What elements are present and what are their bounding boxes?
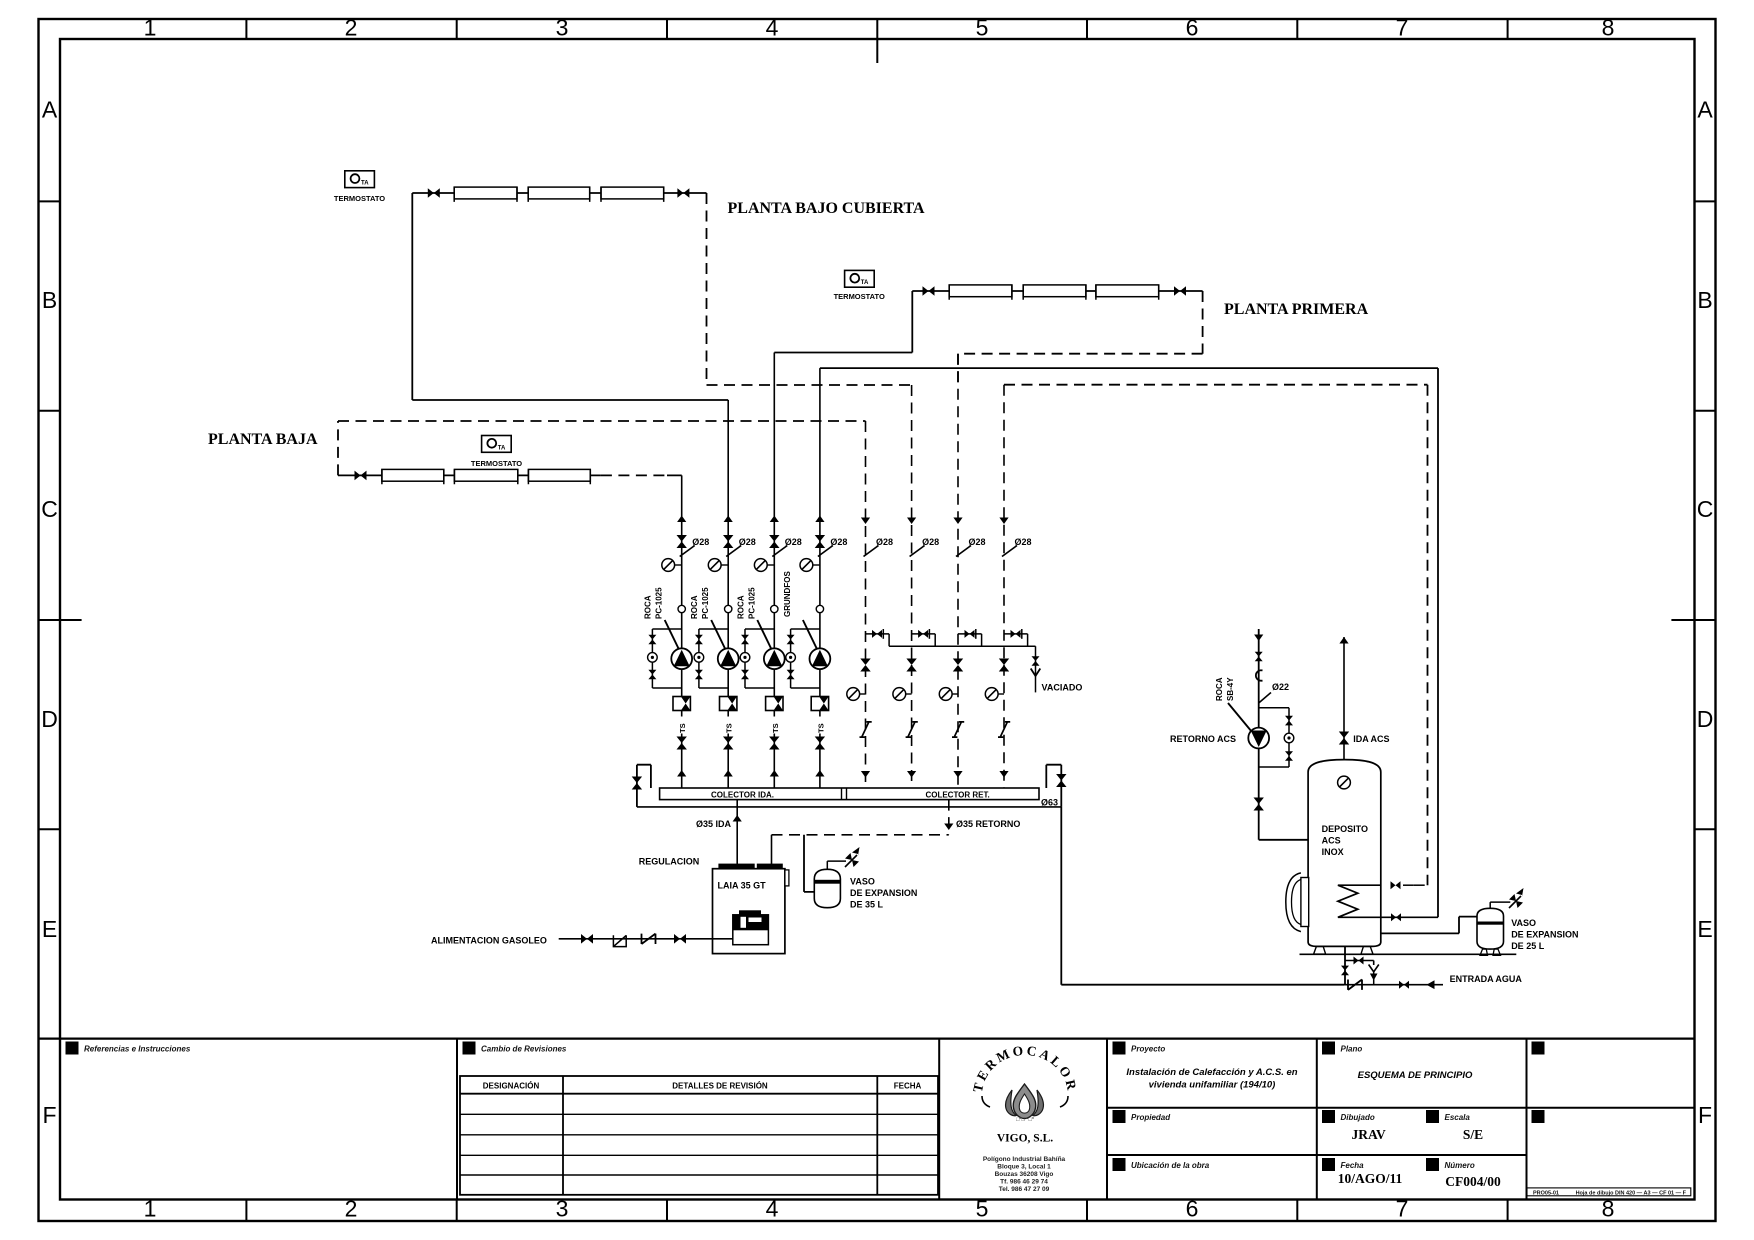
valve: bajo cubierta right radiator valve [677, 188, 689, 198]
valve: drain branch return riser 4 [1011, 630, 1021, 638]
drain branch return riser 4 [1004, 634, 1028, 646]
svg-text:GRUNDFOS: GRUNDFOS [783, 571, 792, 617]
valve: bypass upper riser 4 [787, 635, 795, 645]
wire: return riser 2 (dashed) [911, 385, 913, 788]
svg-text:COLECTOR IDA.: COLECTOR IDA. [711, 790, 774, 799]
valve: bypass lower riser 2 [695, 670, 703, 680]
svg-text:Ubicación de la obra: Ubicación de la obra [1131, 1161, 1210, 1170]
wire: planta baja return (dashed) [338, 421, 866, 475]
pipe size tick return riser 4 [1002, 546, 1017, 557]
svg-text:VASO: VASO [1511, 918, 1536, 928]
valve: riser 2 isolation valve [723, 535, 733, 548]
svg-text:8: 8 [1602, 1196, 1615, 1222]
valve: bypass lower riser 4 [787, 670, 795, 680]
valve: drain branch return riser 1 [872, 630, 882, 638]
deposito acs inox tank body [1308, 760, 1381, 947]
probe TS riser 4 [814, 717, 825, 734]
valve: planta baja radiator valve [355, 471, 367, 481]
title block row line 2 [1107, 1154, 1527, 1156]
heating coil in tank [1338, 885, 1438, 917]
valve: retorno acs lower valve [1254, 798, 1264, 811]
valve: bypass lower riser 1 [648, 670, 656, 680]
air purge return riser 2 [893, 688, 906, 701]
svg-text:TA: TA [361, 181, 369, 187]
svg-text:Proyecto: Proyecto [1131, 1045, 1165, 1054]
svg-text:Polígono Industrial Bahíña: Polígono Industrial Bahíña [983, 1156, 1066, 1163]
svg-text:DE EXPANSION: DE EXPANSION [1511, 930, 1578, 940]
wire: planta baja radiator line [338, 474, 682, 476]
flow arrow &#216;35 ida [733, 815, 742, 822]
escala cell [1426, 1110, 1439, 1123]
svg-text:TERMOSTATO: TERMOSTATO [334, 194, 385, 203]
ruler ticks bottom [245, 1200, 247, 1222]
svg-text:B: B [1697, 287, 1712, 313]
flow arrow down return riser 1 [861, 518, 870, 525]
numero cell [1426, 1158, 1439, 1171]
svg-text:Bouzas 36208 Vigo: Bouzas 36208 Vigo [995, 1171, 1054, 1178]
svg-text:Dibujado: Dibujado [1341, 1113, 1375, 1122]
valve: return riser 1 isolation valve [860, 659, 870, 672]
svg-text:LAIA 35 GT: LAIA 35 GT [718, 881, 767, 891]
leader line to pump 1 [665, 620, 681, 652]
wire: entrada agua line [1344, 984, 1443, 986]
radiator: baja 2 [454, 469, 517, 481]
valve: riser 1 lower isolation valve [677, 737, 687, 750]
svg-text:PLANTA PRIMERA: PLANTA PRIMERA [1224, 301, 1369, 318]
wire: return riser 4 (dashed) [1003, 385, 1005, 788]
svg-text:JRAV: JRAV [1351, 1127, 1386, 1142]
radiator: primera 2 [1023, 285, 1086, 297]
collector bar (colector ida / colector ret.) [660, 788, 1039, 800]
wire: acs coil supply run (solid) [820, 368, 1438, 917]
svg-text:ROCA: ROCA [736, 595, 745, 619]
valve: primera left radiator valve [923, 286, 935, 296]
svg-text:E: E [42, 916, 57, 942]
wire: acs coil return run (dashed) [1004, 385, 1428, 886]
boiler right tab [785, 870, 789, 886]
pipe size tick return riser 3 [956, 546, 971, 557]
pipe size tick return riser 1 [864, 546, 879, 557]
union riser 2 [725, 605, 732, 612]
valve: drain discharge valve [1354, 957, 1364, 965]
drain branch return riser 3 [958, 634, 982, 646]
pump P4 (GRUNDFOS) [810, 648, 831, 669]
gauge: acs bypass [1284, 733, 1294, 743]
valve: ida acs valve [1339, 732, 1349, 745]
wire: expansion vessel 35l branch [804, 835, 814, 892]
ruler ticks right [1695, 200, 1716, 202]
svg-text:S/E: S/E [1463, 1127, 1483, 1142]
floor line [1300, 953, 1517, 955]
flow arrow up riser 1 [677, 516, 686, 523]
flow arrow retorno acs [1254, 635, 1263, 642]
union riser 3 [771, 605, 778, 612]
svg-text:VASO: VASO [850, 877, 875, 887]
boiler top flange right [757, 864, 783, 869]
drain branch return riser 1 [866, 634, 890, 646]
svg-text:ROCA: ROCA [644, 595, 653, 619]
ruler ticks left [39, 200, 61, 202]
boiler top flange left [718, 864, 754, 869]
anti-return device retorno acs [1256, 670, 1263, 680]
right info cell squares [1532, 1042, 1545, 1055]
valve: primera right radiator valve [1174, 286, 1186, 296]
svg-text:8: 8 [1602, 15, 1615, 41]
proyecto cell [1113, 1042, 1126, 1055]
propiedad cell [1113, 1110, 1126, 1123]
pump bypass riser 1 [652, 629, 681, 688]
svg-text:F: F [1698, 1102, 1712, 1128]
flow arrow up riser 2 [724, 516, 733, 523]
safety valve (vaso 35l) [845, 847, 860, 867]
pipe size tick riser 2 [726, 546, 741, 557]
svg-text:Cambio de Revisiones: Cambio de Revisiones [481, 1045, 567, 1054]
pump P2 (ROCA PC-1025) [718, 648, 739, 669]
valve: bypass upper riser 3 [741, 635, 749, 645]
valve: retorno acs upper valve [1255, 652, 1263, 662]
air purge riser 2 [708, 559, 721, 572]
funnel arrow vaciado [1031, 669, 1041, 677]
svg-text:TS: TS [816, 723, 825, 733]
title block vertical dividers [456, 1039, 458, 1200]
wire: bottom drain line [637, 806, 1061, 808]
flow arrow down return riser 4 [999, 518, 1008, 525]
svg-text:PLANTA BAJO CUBIERTA: PLANTA BAJO CUBIERTA [728, 200, 926, 217]
svg-text:RETORNO ACS: RETORNO ACS [1170, 734, 1236, 744]
wire: &#216;35 ida pipe to boiler [736, 800, 738, 864]
valve: coil bottom port [1391, 913, 1401, 921]
union riser 4 [816, 605, 823, 612]
svg-text:ROCA: ROCA [1215, 677, 1224, 701]
svg-text:PRO05-01: PRO05-01 [1533, 1190, 1559, 1196]
flow arrow into collector return riser 1 [861, 771, 870, 778]
svg-text:DE EXPANSION: DE EXPANSION [850, 888, 917, 898]
air purge riser 4 [800, 559, 813, 572]
flow arrow into collector riser 3 [770, 770, 779, 777]
flow arrow up riser 4 [815, 516, 824, 523]
valve: acs bypass upper [1285, 716, 1293, 726]
valve: return riser 4 isolation valve [999, 659, 1009, 672]
svg-text:Propiedad: Propiedad [1131, 1113, 1171, 1122]
svg-text:DEPOSITO: DEPOSITO [1322, 824, 1368, 834]
wire: collector right elbow [1046, 765, 1061, 807]
expansion vessel 35 l [814, 869, 840, 907]
svg-text:Ø63: Ø63 [1041, 798, 1058, 808]
vessel 25l foot right [1493, 949, 1501, 955]
revision table [460, 1076, 938, 1195]
wire: planta primera return (dashed) [958, 291, 1203, 385]
valve: drain branch return riser 3 [965, 630, 975, 638]
svg-text:Fecha: Fecha [1341, 1161, 1365, 1170]
svg-text:ALIMENTACION GASOLEO: ALIMENTACION GASOLEO [431, 936, 547, 946]
svg-text:Escala: Escala [1445, 1113, 1471, 1122]
svg-text:PLANTA BAJA: PLANTA BAJA [208, 431, 318, 448]
wire: &#216;35 retorno pipe (dashed) [948, 800, 950, 835]
tank foot right [1361, 946, 1373, 954]
thermostat TA (baja) [482, 436, 512, 453]
thermostat TA (bajo cubierta) [345, 171, 375, 188]
svg-text:C: C [41, 496, 58, 522]
wire: drain downcomer to water inlet [1061, 807, 1344, 985]
svg-text:SB-4Y: SB-4Y [1226, 677, 1235, 701]
valve: return riser 3 isolation valve [953, 659, 963, 672]
svg-text:Ø35 IDA: Ø35 IDA [696, 819, 732, 829]
flow arrow ida acs [1339, 637, 1348, 644]
radiator: bajo cubierta 1 [454, 187, 517, 199]
svg-text:ESQUEMA DE PRINCIPIO: ESQUEMA DE PRINCIPIO [1358, 1070, 1473, 1081]
radiator: baja 1 [382, 469, 444, 481]
svg-text:C: C [1697, 496, 1714, 522]
valve: acs bypass lower [1285, 751, 1293, 761]
pump P3 (ROCA PC-1025) [764, 648, 785, 669]
valve: riser 2 lower isolation valve [723, 737, 733, 750]
radiator: baja 3 [528, 469, 590, 481]
valve: bypass upper riser 2 [695, 635, 703, 645]
svg-text:Número: Número [1445, 1161, 1475, 1170]
svg-text:Ø28: Ø28 [876, 537, 893, 547]
valve: fuel line valve 1 [581, 934, 593, 944]
svg-text:Bloque 3, Local 1: Bloque 3, Local 1 [997, 1164, 1051, 1171]
wire: drain header [889, 645, 1035, 647]
check valve riser 1 [673, 697, 690, 711]
flow arrow into collector return riser 3 [953, 771, 962, 778]
svg-text:DESIGNACIÓN: DESIGNACIÓN [483, 1082, 540, 1091]
pump bypass retorno acs [1259, 708, 1289, 767]
pipe size tick riser 3 [772, 546, 787, 557]
pump P1 (ROCA PC-1025) [671, 648, 692, 669]
probe TS riser 1 [676, 717, 687, 734]
svg-text:TERMOSTATO: TERMOSTATO [471, 459, 522, 468]
svg-text:□°□ °□°: □°□ °□° [1016, 1117, 1034, 1123]
svg-text:DE 35 L: DE 35 L [850, 900, 884, 910]
fecha cell [1322, 1158, 1335, 1171]
wire: vaciado drop [1035, 646, 1037, 692]
svg-text:7: 7 [1396, 1196, 1409, 1222]
valve: riser 3 isolation valve [769, 535, 779, 548]
svg-text:Ø35 RETORNO: Ø35 RETORNO [956, 819, 1020, 829]
flow arrow into collector riser 4 [815, 770, 824, 777]
svg-text:3: 3 [556, 1196, 569, 1222]
gauge: bypass riser 2 [694, 653, 704, 663]
safety valve (vaso 25l) [1509, 888, 1524, 908]
plano cell [1322, 1042, 1335, 1055]
svg-text:PC-1025: PC-1025 [655, 587, 664, 619]
ruler ticks top [245, 19, 247, 39]
check valve riser 2 [720, 697, 737, 711]
wire: retorno drop into boiler [771, 835, 773, 864]
valve: vaciado drain valve [1032, 656, 1040, 666]
flow arrow entrada agua [1427, 980, 1435, 989]
wire: planta primera supply line (solid) [774, 291, 1202, 353]
svg-text:PC-1025: PC-1025 [701, 587, 710, 619]
flow arrow into collector return riser 2 [907, 771, 916, 778]
union riser 1 [678, 605, 685, 612]
regulator return riser 3 [952, 722, 964, 737]
wire: coil top port to return run [1403, 884, 1414, 886]
tank foot left [1314, 946, 1326, 954]
air purge on tank top [1338, 776, 1351, 789]
svg-text:REGULACION: REGULACION [639, 857, 700, 867]
svg-text:5: 5 [976, 1196, 989, 1222]
air purge return riser 4 [985, 688, 998, 701]
svg-text:Ø28: Ø28 [739, 537, 756, 547]
svg-text:Ø28: Ø28 [830, 537, 847, 547]
svg-text:7: 7 [1396, 15, 1409, 41]
svg-text:10/AGO/11: 10/AGO/11 [1338, 1171, 1403, 1186]
vessel 25l foot left [1480, 949, 1488, 955]
radiator: bajo cubierta 2 [528, 187, 590, 199]
svg-text:D: D [1697, 706, 1714, 732]
valve: bypass upper riser 1 [648, 635, 656, 645]
svg-text:Ø28: Ø28 [922, 537, 939, 547]
svg-text:E: E [1697, 916, 1712, 942]
svg-text:1: 1 [144, 15, 157, 41]
drain branch return riser 2 [912, 634, 936, 646]
wire: planta bajo cubierta return (dashed) [707, 193, 912, 385]
dibujado cell [1322, 1110, 1335, 1123]
svg-text:2: 2 [345, 15, 358, 41]
wire: tank drain vertical [1344, 946, 1346, 984]
valve: riser 1 isolation valve [677, 535, 687, 548]
valve: collector left drain valve [632, 777, 642, 790]
svg-text:COLECTOR RET.: COLECTOR RET. [925, 790, 989, 799]
regulator return riser 1 [860, 722, 872, 737]
pipe size tick return riser 2 [910, 546, 925, 557]
expansion vessel 25 l [1477, 908, 1504, 949]
regulator return riser 2 [906, 722, 918, 737]
svg-text:B: B [42, 287, 57, 313]
air purge return riser 1 [847, 688, 860, 701]
leader line to pump 2 [711, 620, 727, 652]
flow arrow &#216;35 retorno [944, 824, 953, 831]
wire: ida acs line [1343, 637, 1345, 760]
svg-text:Plano: Plano [1341, 1045, 1363, 1054]
gauge: bypass riser 4 [786, 653, 796, 663]
referencias e instrucciones header [66, 1042, 79, 1055]
wire: return riser 1 (dashed) [865, 421, 867, 788]
radiator: bajo cubierta 3 [601, 187, 664, 199]
svg-text:2: 2 [345, 1196, 358, 1222]
regulator return riser 4 [998, 722, 1010, 737]
svg-text:1: 1 [144, 1196, 157, 1222]
svg-text:FECHA: FECHA [894, 1082, 922, 1091]
svg-text:Tel. 986 47 27 09: Tel. 986 47 27 09 [999, 1186, 1050, 1193]
gauge: bypass riser 1 [648, 653, 658, 663]
drain discharge branch [1345, 961, 1374, 966]
flow arrow down return riser 3 [953, 518, 962, 525]
svg-text:VACIADO: VACIADO [1042, 683, 1083, 693]
fuel filter [613, 935, 626, 946]
pump bypass riser 2 [699, 629, 728, 688]
air purge return riser 3 [939, 688, 952, 701]
wire: vessel 25l safety stub [1490, 902, 1510, 908]
wire: supply riser 4 [819, 368, 821, 788]
pipe size tick retorno acs [1259, 693, 1271, 704]
air purge riser 3 [754, 559, 767, 572]
valve: coil top port [1391, 881, 1401, 889]
flow arrow up riser 3 [770, 516, 779, 523]
svg-text:Ø28: Ø28 [785, 537, 802, 547]
svg-text:TA: TA [861, 280, 869, 286]
valve: entrada agua valve [1399, 981, 1409, 989]
svg-text:CF004/00: CF004/00 [1445, 1174, 1501, 1189]
pump: ROCA SB-4Y recirculator [1248, 728, 1269, 749]
logo TERMOCALOR VIGO S.L. [970, 1043, 1080, 1193]
leader line to acs pump [1228, 703, 1252, 732]
wire: retorno acs line [1259, 629, 1308, 840]
svg-text:VIGO, S.L.: VIGO, S.L. [997, 1133, 1053, 1145]
check valve riser 3 [766, 697, 783, 711]
svg-text:Hoja de dibujo DIN 420 — A3 —: Hoja de dibujo DIN 420 — A3 — CF 01 — F [1576, 1190, 1687, 1196]
ubicacion cell [1113, 1158, 1126, 1171]
svg-text:Ø28: Ø28 [692, 537, 709, 547]
svg-text:Ø28: Ø28 [1015, 537, 1032, 547]
svg-text:D: D [41, 706, 58, 732]
svg-text:Ø28: Ø28 [969, 537, 986, 547]
svg-text:3: 3 [556, 15, 569, 41]
probe TS riser 3 [769, 717, 780, 734]
flow arrow into collector riser 1 [677, 770, 686, 777]
gauge: bypass riser 3 [740, 653, 750, 663]
svg-text:PC-1025: PC-1025 [747, 587, 756, 619]
valve: tank drain valve [1341, 966, 1349, 976]
svg-text:Instalación de Calefacción y A: Instalación de Calefacción y A.C.S. en [1126, 1067, 1297, 1078]
wire: supply riser 1 [681, 475, 683, 788]
svg-text:F: F [42, 1102, 56, 1128]
svg-text:A: A [1697, 97, 1713, 123]
wire: collector left elbow [637, 765, 651, 807]
pump bypass riser 4 [791, 629, 820, 688]
bottom right reference strip [1527, 1188, 1691, 1196]
valve: fuel line valve 2 [674, 934, 686, 944]
flow arrow into collector riser 2 [724, 770, 733, 777]
svg-text:TA: TA [498, 445, 506, 451]
air purge riser 1 [662, 559, 675, 572]
wire: retorno header (dashed) [772, 834, 949, 836]
svg-text:ROCA: ROCA [690, 595, 699, 619]
tundish drain [1369, 965, 1379, 972]
leader line to pump 3 [757, 620, 773, 652]
svg-text:6: 6 [1186, 15, 1199, 41]
burner [733, 910, 769, 944]
valve: collector right drain valve [1056, 774, 1066, 787]
valve: riser 3 lower isolation valve [769, 737, 779, 750]
svg-text:6: 6 [1186, 1196, 1199, 1222]
svg-text:DE 25 L: DE 25 L [1511, 941, 1545, 951]
flexible connector (water inlet) [1348, 980, 1362, 990]
check valve riser 4 [811, 697, 828, 711]
tank side flange [1301, 878, 1309, 927]
valve: drain branch return riser 2 [918, 630, 928, 638]
wire: supply riser 2 [727, 400, 729, 788]
valve: riser 4 lower isolation valve [815, 737, 825, 750]
svg-text:ACS: ACS [1322, 836, 1341, 846]
svg-text:DETALLES DE REVISIÓN: DETALLES DE REVISIÓN [672, 1082, 768, 1091]
svg-text:Ø22: Ø22 [1272, 682, 1289, 692]
valve: riser 4 isolation valve [815, 535, 825, 548]
svg-text:5: 5 [976, 15, 989, 41]
flexible connector (fuel) [642, 934, 656, 944]
radiator: primera 3 [1096, 285, 1159, 297]
radiator: primera 1 [949, 285, 1012, 297]
leader line to pump 4 [803, 620, 819, 652]
svg-text:A: A [42, 97, 58, 123]
svg-text:IDA ACS: IDA ACS [1353, 734, 1389, 744]
svg-text:ENTRADA AGUA: ENTRADA AGUA [1450, 974, 1523, 984]
svg-text:TERMOSTATO: TERMOSTATO [834, 292, 885, 301]
thermostat TA (primera) [845, 270, 875, 287]
boiler LAIA 35 GT body [713, 869, 785, 954]
